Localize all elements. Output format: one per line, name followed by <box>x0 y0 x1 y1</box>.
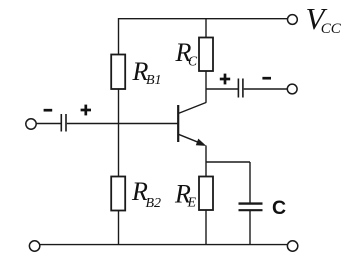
wire RB2 bottom to ground rail <box>118 211 120 245</box>
wire bottom ground rail <box>40 244 287 246</box>
wire RB1 bottom to base node to RB2 top <box>118 89 120 177</box>
resistor RE <box>199 177 213 211</box>
resistor RB1 <box>111 55 125 90</box>
wire emitter down to emitter node and RE <box>205 146 207 177</box>
label input capacitor plus sign <box>81 109 91 112</box>
node ground-right terminal circle <box>287 241 297 251</box>
wire RE bottom to ground rail <box>205 210 207 245</box>
capacitor C bypass plates <box>239 202 263 204</box>
transistor Q1 collector lead <box>178 103 206 114</box>
wire capacitor to base node to transistor base <box>67 123 178 125</box>
wire collector node to output capacitor <box>206 88 238 90</box>
label input capacitor minus sign <box>44 109 53 112</box>
transistor Q1 base bar <box>177 105 179 142</box>
node ground-left terminal circle <box>29 241 39 251</box>
capacitor C1 input coupling <box>60 114 62 132</box>
wire left branch upper (rail to RB1) <box>118 18 120 55</box>
wire input terminal to capacitor <box>36 123 61 125</box>
wire emitter node to bypass capacitor branch <box>206 161 250 163</box>
label output capacitor minus sign <box>262 77 271 80</box>
wire output capacitor to output terminal <box>244 88 288 90</box>
resistor RB2 <box>111 177 125 211</box>
label output capacitor plus sign <box>220 78 230 81</box>
capacitor C2 output coupling <box>237 79 239 98</box>
wire top rail (Vcc rail) <box>119 18 288 20</box>
wire RC top (rail to RC) <box>205 18 207 38</box>
resistor RC <box>199 38 213 72</box>
wire RC bottom to collector node <box>205 71 207 103</box>
svg-text:C: C <box>272 197 286 219</box>
svg-text:B1: B1 <box>146 73 162 88</box>
node input terminal circle <box>26 119 36 129</box>
node Vcc terminal circle <box>288 15 298 25</box>
svg-text:B2: B2 <box>146 196 162 211</box>
node output terminal circle <box>287 84 297 94</box>
transistor Q1 emitter lead with arrow <box>178 134 202 144</box>
svg-text:C: C <box>188 53 198 68</box>
svg-text:CC: CC <box>321 21 342 37</box>
wire bypass branch upper <box>249 162 251 203</box>
wire bypass branch lower to ground rail <box>249 211 251 245</box>
svg-text:E: E <box>187 196 197 211</box>
